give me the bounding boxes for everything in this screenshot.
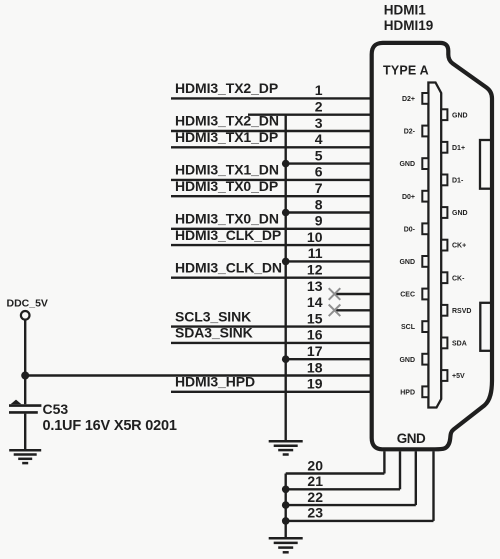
svg-text:SDA: SDA <box>452 341 467 348</box>
svg-text:9: 9 <box>315 213 323 229</box>
svg-text:16: 16 <box>307 327 323 343</box>
svg-text:HDMI19: HDMI19 <box>384 18 434 33</box>
svg-text:CEC: CEC <box>400 292 415 299</box>
svg-text:D0-: D0- <box>404 226 416 233</box>
svg-text:+5V: +5V <box>452 373 465 380</box>
svg-text:4: 4 <box>315 131 323 147</box>
svg-text:19: 19 <box>307 376 323 392</box>
svg-text:D0+: D0+ <box>402 194 415 201</box>
svg-text:RSVD: RSVD <box>452 308 471 315</box>
svg-text:5: 5 <box>315 147 323 163</box>
svg-text:GND: GND <box>399 259 415 266</box>
svg-text:GND: GND <box>399 357 415 364</box>
svg-text:D1-: D1- <box>452 178 464 185</box>
svg-text:TYPE A: TYPE A <box>383 64 429 78</box>
svg-text:2: 2 <box>315 99 323 115</box>
svg-text:1: 1 <box>315 82 323 98</box>
svg-text:D2-: D2- <box>404 129 416 136</box>
svg-text:20: 20 <box>307 457 323 473</box>
svg-text:HDMI3_CLK_DN: HDMI3_CLK_DN <box>175 259 282 275</box>
svg-text:15: 15 <box>307 310 323 326</box>
svg-text:GND: GND <box>397 431 426 446</box>
svg-text:D1+: D1+ <box>452 145 465 152</box>
svg-text:8: 8 <box>315 196 323 212</box>
svg-text:HDMI3_CLK_DP: HDMI3_CLK_DP <box>175 227 281 243</box>
svg-text:CK-: CK- <box>452 275 465 282</box>
svg-text:11: 11 <box>308 245 323 261</box>
svg-text:SDA3_SINK: SDA3_SINK <box>175 325 253 341</box>
svg-text:17: 17 <box>307 343 323 359</box>
svg-text:SCL3_SINK: SCL3_SINK <box>175 308 251 324</box>
svg-text:6: 6 <box>315 164 323 180</box>
svg-text:21: 21 <box>307 473 323 489</box>
svg-text:HDMI3_TX2_DN: HDMI3_TX2_DN <box>175 113 279 129</box>
svg-text:DDC_5V: DDC_5V <box>7 298 48 310</box>
svg-text:22: 22 <box>307 489 323 505</box>
svg-text:GND: GND <box>452 210 468 217</box>
svg-text:HDMI3_TX0_DP: HDMI3_TX0_DP <box>175 178 278 194</box>
svg-text:23: 23 <box>307 505 323 521</box>
svg-text:SCL: SCL <box>401 324 416 331</box>
svg-text:HDMI3_TX1_DN: HDMI3_TX1_DN <box>175 162 279 178</box>
svg-text:C53: C53 <box>43 401 69 417</box>
svg-text:18: 18 <box>307 359 323 375</box>
svg-text:14: 14 <box>307 294 323 310</box>
svg-text:HDMI3_TX0_DN: HDMI3_TX0_DN <box>175 211 279 227</box>
svg-text:13: 13 <box>307 278 323 294</box>
svg-text:HDMI3_HPD: HDMI3_HPD <box>175 374 255 390</box>
svg-text:10: 10 <box>307 229 323 245</box>
svg-text:CK+: CK+ <box>452 243 466 250</box>
svg-text:0.1UF 16V X5R 0201: 0.1UF 16V X5R 0201 <box>43 418 177 434</box>
svg-text:HDMI1: HDMI1 <box>384 2 426 17</box>
svg-text:D2+: D2+ <box>402 96 415 103</box>
svg-text:GND: GND <box>452 112 468 119</box>
svg-text:HDMI3_TX1_DP: HDMI3_TX1_DP <box>175 129 278 145</box>
svg-text:GND: GND <box>399 161 415 168</box>
svg-text:3: 3 <box>315 115 323 131</box>
svg-text:HDMI3_TX2_DP: HDMI3_TX2_DP <box>175 80 278 96</box>
svg-text:7: 7 <box>315 180 323 196</box>
svg-text:HPD: HPD <box>400 389 415 396</box>
svg-text:12: 12 <box>307 262 323 278</box>
